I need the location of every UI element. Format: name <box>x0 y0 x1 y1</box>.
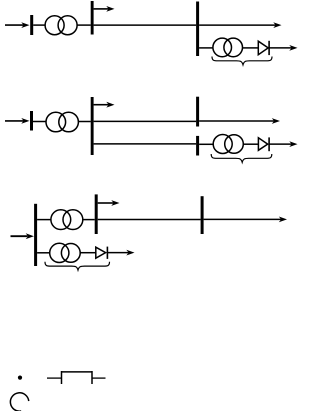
wire branch to T2a <box>199 47 213 49</box>
upper busbar B (system b) <box>196 97 199 127</box>
wire <box>77 24 91 26</box>
outgoing arrow from busbar C (system c) <box>204 217 287 223</box>
wire (upper line A-B system b) <box>94 120 197 122</box>
jumper symbol top bar <box>62 371 93 373</box>
transformer T2c <box>50 243 81 262</box>
generator symbol (open circle, legend) <box>10 393 28 411</box>
outgoing arrow from busbar B (system a) <box>199 22 281 28</box>
arrow to dc load (system a) <box>269 45 297 51</box>
terminal bar (system a input) <box>30 15 33 35</box>
node dot (legend) <box>18 376 22 380</box>
arrow to dc load (system c) <box>107 250 134 256</box>
underbrace (system c converter unit) <box>45 262 110 270</box>
terminal bar (system b input) <box>30 111 33 131</box>
wire <box>78 121 90 123</box>
wire branch to T2b <box>199 143 213 145</box>
arrow to dc load (system b) <box>269 141 297 147</box>
wire <box>83 219 95 221</box>
wire upper branch <box>37 219 51 221</box>
wire (line A-B system a) <box>94 24 197 26</box>
busbar B (system c) <box>95 194 98 234</box>
outgoing arrow from upper busbar B (system b) <box>199 118 280 124</box>
busbar A (system b) <box>91 97 94 155</box>
jumper symbol right tick <box>91 371 93 384</box>
underbrace (system b converter unit) <box>211 154 272 162</box>
source arrow into system c <box>11 233 34 239</box>
source arrow into system a <box>5 22 30 28</box>
busbar B (system a) <box>196 2 199 57</box>
lower busbar B (system b) <box>196 136 199 156</box>
diode VD a (rectifier) <box>258 41 269 55</box>
transformer T1c <box>51 210 83 230</box>
wire <box>33 121 46 123</box>
jumper symbol left tick <box>61 371 63 384</box>
source arrow into system b <box>5 118 30 124</box>
wire <box>243 143 258 145</box>
load arrow from busbar B (system c) <box>98 200 120 206</box>
jumper symbol right lead <box>92 377 106 379</box>
load arrow from busbar A <box>94 6 115 12</box>
wire <box>80 252 96 254</box>
diode VD c (rectifier) <box>96 247 108 259</box>
transformer T1a <box>45 16 77 35</box>
load arrow from busbar A (system b) <box>94 102 115 108</box>
busbar A (system a) <box>91 1 94 35</box>
busbar C (system c) <box>201 196 204 234</box>
jumper symbol left lead <box>47 377 62 379</box>
wire (lower line A-B system b) <box>94 143 197 145</box>
wire <box>243 47 259 49</box>
transformer T2a <box>213 38 243 57</box>
wire (line B-C system c) <box>98 219 201 221</box>
diode VD b (rectifier) <box>258 137 269 151</box>
wire lower branch <box>37 252 50 254</box>
transformer T2b <box>213 135 243 154</box>
busbar A (system c) <box>34 204 37 266</box>
wire <box>33 24 45 26</box>
transformer T1b <box>46 112 78 132</box>
underbrace (system a converter unit) <box>212 57 272 65</box>
